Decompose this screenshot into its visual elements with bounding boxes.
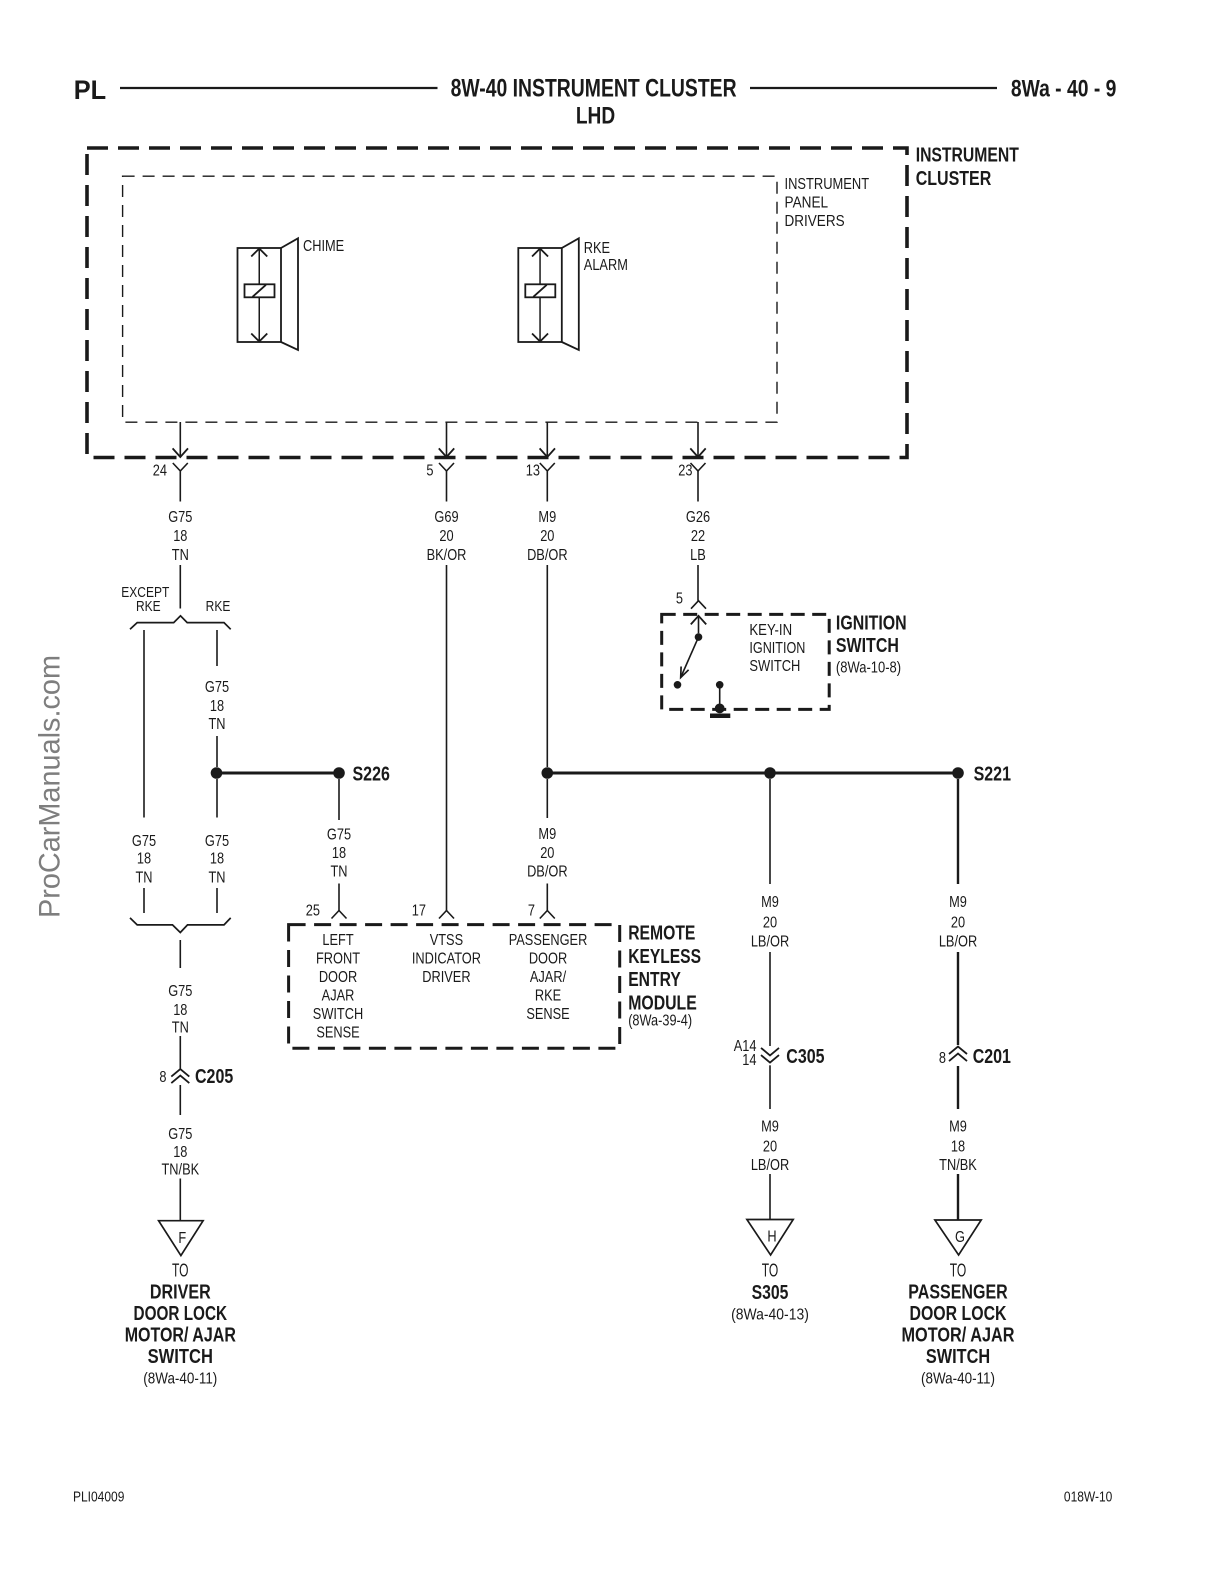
branch label EXCEPT RKE [121,584,169,615]
header rule left [120,87,438,89]
svg-text:8: 8 [159,1069,166,1087]
svg-text:MOTOR/ AJAR: MOTOR/ AJAR [902,1325,1015,1347]
driver symbol RKE alarm: right flag [562,238,579,350]
svg-text:TN: TN [330,863,347,881]
svg-text:5: 5 [676,590,683,608]
header code PL [74,74,106,105]
wire M9 to off-page triangle H [769,1174,771,1220]
key-in ignition switch dashed box [662,614,830,709]
svg-text:(8Wa-40-11): (8Wa-40-11) [921,1371,995,1388]
ignition switch ground contact [716,681,724,689]
wire M9 to connector C305 [769,952,771,1046]
pin number 8 at C205 [159,1069,166,1087]
connector terminal below pin 5 [439,463,454,502]
header subtitle LHD [576,103,615,130]
wire label G75 18 TN (S226 branch) [327,826,351,881]
svg-text:TN: TN [172,547,189,565]
svg-text:DOOR LOCK: DOOR LOCK [134,1303,228,1325]
pin number 24 [153,462,167,480]
ignition switch ground lead [719,688,721,704]
off-page connector triangle G [935,1220,981,1255]
pin number 23 [678,462,692,480]
svg-text:S221: S221 [974,763,1011,785]
wire G75 from merge brace [179,940,181,968]
wire G75 from S226 toward module pin 25 [338,779,340,820]
wire label G75 18 TN (to C205) [168,983,192,1037]
svg-text:G26: G26 [686,509,710,527]
ignition switch pin arrow [691,616,706,634]
header title 8W-40 INSTRUMENT CLUSTER [451,74,737,102]
wire label M9 20 LB/OR (lower left column) [751,1118,789,1174]
svg-text:G75: G75 [168,1126,192,1144]
svg-text:(8Wa-40-11): (8Wa-40-11) [143,1371,217,1388]
svg-text:FRONT: FRONT [316,950,360,968]
label REMOTE KEYLESS ENTRY MODULE (8Wa-39-4) [628,922,701,1029]
svg-text:C305: C305 [786,1045,824,1067]
svg-text:20: 20 [763,1138,777,1156]
branch label RKE [206,598,231,615]
wire M9 to off-page triangle G [957,1174,959,1220]
svg-text:SWITCH: SWITCH [926,1346,990,1368]
svg-text:DRIVERS: DRIVERS [785,213,845,230]
svg-text:G75: G75 [168,983,192,1001]
splice S226 tie line [217,772,340,775]
pin number 7 [528,902,535,920]
arrowhead pin 23 at cluster box edge [690,448,705,457]
svg-text:DB/OR: DB/OR [527,863,567,881]
splice S226 dot [333,767,345,779]
svg-text:M9: M9 [949,1118,967,1136]
svg-text:TO: TO [172,1260,189,1280]
svg-text:SWITCH: SWITCH [313,1006,363,1024]
svg-text:SENSE: SENSE [526,1006,570,1024]
svg-text:M9: M9 [949,894,967,912]
footer sheet number 018W-10 [1064,1488,1113,1505]
svg-text:CLUSTER: CLUSTER [916,168,992,190]
svg-text:TO: TO [762,1260,779,1280]
connector C205 (in-line) [171,1069,189,1083]
svg-text:8W-40 INSTRUMENT CLUSTER: 8W-40 INSTRUMENT CLUSTER [451,74,737,102]
wire label G75 18 TN (circuit A) [168,509,192,565]
svg-text:INSTRUMENT: INSTRUMENT [785,176,870,193]
svg-text:TN: TN [208,869,225,887]
svg-text:(8Wa-40-13): (8Wa-40-13) [731,1307,809,1324]
svg-text:ALARM: ALARM [584,257,628,275]
svg-text:20: 20 [951,914,965,932]
wire M9 to connector C201 [957,952,959,1045]
label C205 [195,1065,233,1087]
wire pin 5 from panel drivers box to cluster edge [446,422,448,456]
connector C305 (in-line) [761,1048,779,1063]
svg-text:H: H [767,1228,776,1246]
watermark ProCarManuals.com [34,655,67,918]
ground bar [710,713,730,718]
off-page connector triangle F [159,1221,204,1256]
svg-text:DOOR LOCK: DOOR LOCK [910,1303,1007,1325]
splice S221 dot right [952,767,964,779]
svg-text:M9: M9 [538,826,556,844]
svg-text:G: G [955,1229,965,1247]
splice S221 dot on M9 wire [542,767,554,779]
wire G75 down to branch brace [179,565,181,609]
svg-text:INSTRUMENT: INSTRUMENT [916,145,1019,167]
svg-text:17: 17 [412,902,426,920]
pin number 17 [412,902,426,920]
pin number 5 [426,462,433,480]
wire pin 13 from panel drivers box to cluster edge [546,422,548,456]
svg-text:DRIVER: DRIVER [150,1282,211,1304]
wire except-RKE branch (left) [143,630,145,818]
svg-text:22: 22 [691,528,705,546]
wire M9 from cluster to splice S221 [546,565,548,767]
wire G69 from cluster to keyless module pin 17 [446,565,448,885]
wire RKE branch to splice [216,736,218,767]
svg-text:G69: G69 [434,509,458,527]
svg-text:C205: C205 [195,1065,233,1087]
wire label G75 18 TN/BK [161,1126,199,1179]
destination label TO PASSENGER DOOR LOCK MOTOR/AJAR SWITCH [902,1260,1015,1387]
svg-text:SENSE: SENSE [316,1024,360,1042]
ignition switch contact (key-in) [674,681,682,689]
ignition switch pivot contact [695,633,703,641]
splice junction dot on RKE branch [211,767,223,779]
svg-text:M9: M9 [538,509,556,527]
svg-text:SWITCH: SWITCH [749,658,800,675]
pin number 5 at ignition switch [676,590,683,608]
wire RKE branch stub to merge brace [216,888,218,913]
label S221 [974,763,1011,785]
wire M9 from S221 toward C305 [769,779,771,884]
driver symbol RKE alarm: bidirectional arrow [532,248,548,342]
pin label A14 14 at C305 [734,1038,757,1069]
destination label TO DRIVER DOOR LOCK MOTOR/AJAR SWITCH [125,1260,237,1387]
label CHIME [303,238,344,256]
wire G75 to module pin 25 terminal [332,884,347,919]
label INSTRUMENT CLUSTER [916,145,1019,190]
driver symbol chime: element box with diagonal [245,284,275,297]
svg-text:PL: PL [74,74,106,105]
driver symbol RKE alarm: body [518,248,562,342]
svg-text:DRIVER: DRIVER [422,969,470,987]
wire RKE branch upper segment [216,630,218,666]
svg-text:PANEL: PANEL [785,195,829,212]
ground stud dot on box edge [715,704,725,714]
svg-text:24: 24 [153,462,167,480]
label C201 [973,1045,1011,1067]
remote keyless entry module dashed box [289,925,620,1049]
module pin label VTSS INDICATOR DRIVER [412,932,481,987]
svg-text:VTSS: VTSS [430,932,463,950]
svg-text:SWITCH: SWITCH [836,635,899,657]
svg-text:M9: M9 [761,1118,779,1136]
wire G75 to off-page triangle F [179,1179,181,1221]
wire label G26 22 LB [686,509,710,565]
svg-text:20: 20 [540,845,554,863]
header page number 8Wa - 40 - 9 [1011,75,1117,102]
svg-text:18: 18 [173,528,187,546]
svg-text:RKE: RKE [584,240,611,258]
svg-text:LB/OR: LB/OR [751,933,789,951]
svg-text:7: 7 [528,902,535,920]
wire G75 below C205 [179,1085,181,1115]
connector terminal below pin 23 [691,463,706,502]
driver symbol chime: right flag [281,238,298,350]
svg-text:IGNITION: IGNITION [836,613,907,635]
module pin label LEFT FRONT DOOR AJAR SWITCH SENSE [313,932,363,1042]
svg-text:DB/OR: DB/OR [527,547,567,565]
connector C201 (in-line) [949,1047,967,1062]
ignition switch blade [681,637,699,677]
wire M9 below C201 [957,1066,959,1109]
wire M9 from S221 toward C201 (thick) [957,779,959,884]
wire label G75 18 TN (RKE branch lower) [205,833,229,887]
svg-text:TN/BK: TN/BK [161,1161,199,1179]
svg-text:RKE: RKE [206,598,231,615]
splice S221 tie line [547,772,958,775]
svg-text:18: 18 [332,845,346,863]
svg-text:8: 8 [939,1050,946,1068]
svg-text:M9: M9 [761,894,779,912]
svg-text:TN: TN [172,1019,189,1037]
svg-text:20: 20 [540,528,554,546]
footer drawing number PLI04009 [73,1488,124,1505]
svg-text:REMOTE: REMOTE [628,922,695,944]
svg-text:20: 20 [439,528,453,546]
svg-text:LB: LB [690,547,706,565]
svg-text:G75: G75 [205,833,229,851]
svg-text:18: 18 [137,850,151,868]
wire label G75 18 TN (left branch lower) [132,833,156,887]
svg-text:S305: S305 [752,1282,789,1304]
destination label TO S305 [731,1260,809,1323]
svg-text:LHD: LHD [576,103,615,130]
module pin label PASSENGER DOOR AJAR/ RKE SENSE [509,932,588,1024]
svg-text:CHIME: CHIME [303,238,344,256]
wire M9 below C305 [769,1065,771,1109]
svg-text:SWITCH: SWITCH [148,1346,213,1368]
svg-text:(8Wa-10-8): (8Wa-10-8) [836,660,901,677]
svg-text:RKE: RKE [136,598,161,615]
label C305 [786,1045,824,1067]
svg-text:23: 23 [678,462,692,480]
svg-text:ProCarManuals.com: ProCarManuals.com [34,655,67,918]
svg-text:018W-10: 018W-10 [1064,1488,1113,1505]
svg-text:LEFT: LEFT [322,932,353,950]
svg-text:TN: TN [135,869,152,887]
instrument panel drivers dashed box [123,176,777,422]
arrowhead pin 13 at cluster box edge [540,448,555,457]
svg-text:ENTRY: ENTRY [628,969,681,991]
svg-text:G75: G75 [205,679,229,697]
wire G26 to key-in ignition switch [697,565,699,601]
svg-text:PASSENGER: PASSENGER [908,1282,1008,1304]
svg-text:G75: G75 [327,826,351,844]
svg-text:C201: C201 [973,1045,1011,1067]
svg-text:MODULE: MODULE [628,992,697,1014]
wire M9 to module pin 7 [540,884,555,919]
svg-text:KEY-IN: KEY-IN [749,622,792,639]
wire label G69 20 BK/OR [427,509,467,565]
terminal at module pin 17 [439,885,454,919]
svg-text:20: 20 [763,914,777,932]
svg-text:25: 25 [306,902,320,920]
svg-text:AJAR/: AJAR/ [530,969,567,987]
pin number 25 [306,902,320,920]
svg-text:13: 13 [526,462,540,480]
svg-text:KEYLESS: KEYLESS [628,946,701,968]
svg-text:BK/OR: BK/OR [427,547,467,565]
wire label M9 20 LB/OR (right column) [939,894,977,951]
svg-text:DOOR: DOOR [319,969,357,987]
wire pin 23 from panel drivers box to cluster edge [697,422,699,456]
wire pin 24 from panel drivers box to cluster edge [179,422,181,456]
wire RKE branch below splice [216,779,218,818]
svg-text:IGNITION: IGNITION [749,640,805,657]
wire label M9 20 DB/OR (lower) [527,826,567,881]
splice S221 middle junction dot [764,767,776,779]
svg-text:G75: G75 [132,833,156,851]
label IGNITION SWITCH (8Wa-10-8) [836,613,907,677]
arrowhead pin 5 at cluster box edge [439,448,454,457]
svg-text:F: F [178,1230,186,1248]
pin number 13 [526,462,540,480]
svg-text:18: 18 [173,1002,187,1020]
svg-text:TN/BK: TN/BK [939,1157,977,1175]
pin number 8 at C201 [939,1050,946,1068]
svg-text:RKE: RKE [535,987,562,1005]
svg-text:(8Wa-39-4): (8Wa-39-4) [628,1013,692,1030]
svg-text:TO: TO [950,1260,967,1280]
wire M9 below splice [546,779,548,818]
svg-text:MOTOR/ AJAR: MOTOR/ AJAR [125,1325,237,1347]
svg-text:18: 18 [210,850,224,868]
wire label M9 18 TN/BK (right column) [939,1118,977,1174]
branch brace top [130,616,231,630]
wire label M9 20 DB/OR [527,509,567,565]
svg-text:5: 5 [426,462,433,480]
arrowhead pin 24 at cluster box edge [173,448,188,457]
svg-text:S226: S226 [353,763,390,785]
svg-text:TN: TN [208,716,225,734]
instrument cluster dashed box [87,148,907,458]
svg-text:LB/OR: LB/OR [751,1157,789,1175]
label S226 [353,763,390,785]
terminal into ignition switch [691,601,706,609]
svg-text:18: 18 [210,698,224,716]
svg-text:DOOR: DOOR [529,950,567,968]
label KEY-IN IGNITION SWITCH [749,622,805,675]
driver symbol RKE alarm: element box with diagonal [525,284,555,297]
label INSTRUMENT PANEL DRIVERS [785,176,870,230]
wire label G75 18 TN (RKE branch) [205,679,229,734]
svg-text:INDICATOR: INDICATOR [412,950,481,968]
svg-text:8Wa - 40 - 9: 8Wa - 40 - 9 [1011,75,1117,102]
svg-text:PASSENGER: PASSENGER [509,932,588,950]
header rule right [750,87,997,89]
connector terminal below pin 24 [173,463,188,502]
driver symbol chime: body [238,248,282,342]
svg-text:LB/OR: LB/OR [939,933,977,951]
svg-text:G75: G75 [168,509,192,527]
svg-text:18: 18 [173,1144,187,1162]
wire label M9 20 LB/OR (upper left column) [751,894,789,951]
label RKE ALARM [584,240,628,275]
connector terminal below pin 13 [540,463,555,502]
svg-text:AJAR: AJAR [322,987,355,1005]
svg-text:14: 14 [742,1052,756,1070]
wire G75 to connector C205 [179,1036,181,1069]
svg-text:PLI04009: PLI04009 [73,1488,124,1505]
branch brace bottom (merge) [130,918,231,933]
wire left branch stub to merge brace [143,888,145,913]
off-page connector triangle H [747,1220,793,1256]
svg-text:18: 18 [951,1138,965,1156]
driver symbol chime: bidirectional arrow [251,248,267,342]
